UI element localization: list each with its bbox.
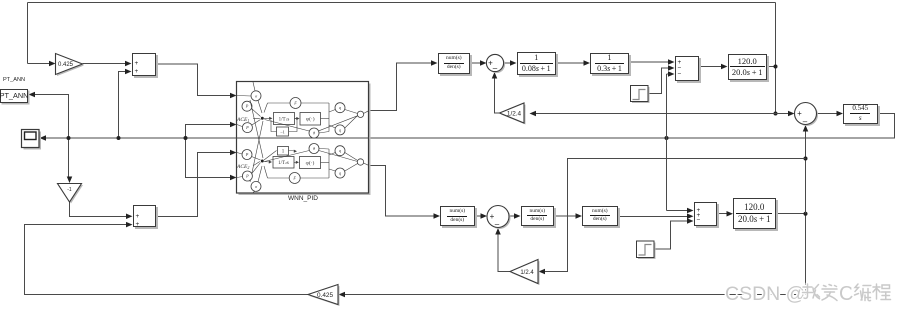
gain B1 frequency bias 0.425 top [56,54,85,77]
WNN theta1 link [319,132,329,134]
sum block C1 (bottom-left adder) [133,205,156,227]
wire bottom rail left segment [25,225,309,295]
WNN loop vertical right [328,103,330,132]
WNN neuron q2b [335,168,345,178]
arrow into sum circle A [480,60,487,66]
WNN link to q1b [329,125,335,128]
svg-text:P: P [245,104,249,109]
WNN neuron P1a [242,101,252,111]
svg-text:–: – [803,117,808,126]
WNN bottom loop rise left [264,166,268,178]
svg-text:0.425: 0.425 [317,292,333,299]
WNN wavelet to phi 2 [294,161,298,163]
WNN theta g2 to hub [265,151,310,162]
WNN port stub 1 [237,95,251,98]
wire elbow into sum B1 in3 [667,73,670,75]
WNN cross link up [250,121,263,182]
WNN top loop rail [268,102,330,104]
WNN link ACE1 to hub [253,117,260,119]
arrow into tie sum left [788,111,795,117]
arrow into gain B2 [339,292,346,298]
arrow into gain B1 [49,61,56,67]
svg-text:ACE2: ACE2 [236,164,249,170]
arrow into sum B1 in2 [668,65,675,71]
step source 2 [637,241,656,259]
junction node F1 lower [774,112,778,116]
arrow into tie sum bottom [803,125,809,132]
transfer fcn turbine area1 [517,52,557,76]
svg-text:CSDN @: CSDN @ [725,283,805,305]
WNN q2a to outhub2 [345,153,358,161]
arrow into sum D1 in2 [687,214,694,220]
WNN feedback box -1 [277,127,289,136]
WNN neuron Fd1 [290,98,301,109]
WNN neuron q1b [335,125,345,135]
svg-text:-1: -1 [67,187,72,193]
transfer fcn turbine area2 [521,206,555,227]
wire sum C1 to WNN in3 [156,153,232,217]
svg-text:q: q [339,171,341,176]
wire sum circle A to turbine1 [504,62,512,64]
WNN sigma2 stem [253,191,255,192]
wire turbine1 to reheat1 [556,62,585,64]
transfer fcn reheat area2 [582,206,618,227]
WNN hub node 1 [261,117,264,120]
WNN loop vertical right 2 [328,149,330,178]
transfer fcn reheat area1 [590,53,629,74]
arrow into governor 2 [434,213,441,219]
arrow into sum D1 in1 [687,208,694,214]
wire ACE tap to WNN in4 [186,138,232,178]
svg-text:1/2.4: 1/2.4 [520,270,534,276]
sum circle B area2 [487,206,511,230]
svg-text:+: + [797,109,802,118]
svg-text:φ(·): φ(·) [306,116,315,123]
transfer fcn power system area2 [733,198,776,229]
wire reheat2 to sum D1 in2 [618,215,689,217]
label WNN_PID block name [266,195,340,202]
WNN link P1b to hub [252,120,261,126]
svg-text:–: – [493,64,498,73]
arrow into reheat 1 [584,60,591,66]
arrow into sum D1 in3 [687,218,694,224]
WNN link P2b to hub [252,163,261,174]
transfer fcn governor area2 [440,206,475,226]
wire node F1 to gain R1 [531,113,776,115]
WNN q2b to outhub2 [345,164,358,172]
wire inverter to sum C1 in1 [70,202,128,217]
transfer fcn tie-line integrator 0.545/s [843,104,878,124]
WNN wavelet to phi 1 [295,118,299,120]
svg-text:q: q [339,105,341,110]
arrow into inverter [67,177,73,184]
watermark hanzi wo [803,284,821,299]
junction ACE rail x666 [665,136,669,140]
arrow into reheat 2 [576,213,583,219]
wire tie sum to integrator [817,113,839,115]
svg-text:θ: θ [313,146,315,151]
wire ACE tap to sum A1 in2 [119,72,127,139]
arrow into WNN in3 [230,150,237,156]
arrow into plant 1 [721,64,728,70]
WNN top loop drop left [264,103,268,113]
arrow into sum B1 in1 [668,59,675,65]
transfer fcn power system area1 [728,54,768,81]
WNN bias out [289,150,297,153]
arrow into WNN in2 [230,122,237,128]
WNN neuron P1b [242,123,252,133]
wire plant2 out to node F2 [776,213,806,215]
wire governor1 to sum circle A [470,62,482,64]
wire into gain B1 [28,63,51,65]
WNN port stub 4 [237,177,243,178]
svg-text:−1: −1 [280,129,285,134]
wire step2 to sum D1 in3 [654,221,689,249]
wire node F1 vertical rail x775 [775,3,777,114]
svg-text:P: P [245,125,249,130]
wire TF120a output to node F1 [767,66,776,68]
arrow into plant 2 [727,211,734,217]
svg-text:1/2.4: 1/2.4 [507,111,522,118]
arrow into sum circle A bottom [492,72,498,79]
label PT_ANN block name [1,77,27,83]
wire ACE tap to inverter [68,138,70,179]
WNN theta2 link [319,148,329,151]
svg-text:q: q [339,148,341,153]
wire ACE rail across WNN block [237,137,369,139]
WNN theta1 to outhub [319,116,358,131]
svg-text:–: – [495,220,500,229]
arrow into sum circle B [481,213,488,219]
wire gain B1 to sum A1 [83,63,127,65]
svg-text:q: q [339,127,341,132]
WNN phi2 out tee [321,161,330,163]
WNN hub node 2 [261,160,264,163]
arrow into WNN in1 [230,93,237,99]
WNN output node 1 [357,111,363,117]
WNN outhub1 to port [364,111,369,114]
WNN sigma1 stem [253,82,255,91]
WNN cross link down [250,100,263,158]
arrow into sum circle B bottom [495,228,501,235]
wire bottom rail right segment [344,294,806,296]
WNN theta2 to outhub2 [319,151,358,162]
watermark hanzi ai [822,285,837,301]
wire gain R1 to sum circle A bottom [495,78,500,114]
watermark hanzi cheng [873,284,891,300]
arrow into integrator [837,111,844,117]
wire integrator output loop [45,114,895,139]
wire top feedback rail y2 [28,2,776,4]
junction ACE rail x185 [184,136,188,140]
arrow into gain R2 [539,269,546,275]
wire gain R2 to sum circle B bottom [498,233,510,272]
WNN neuron q2a [335,146,345,156]
WNN neuron theta g2 [309,144,319,154]
subsystem WNN_PID frame [237,82,371,196]
WNN q1a to outhub [345,110,358,114]
wire turbine2 to reheat2 [554,215,577,217]
svg-text:θ: θ [313,131,315,136]
wire reheat1 to sum B1 in1 [629,61,670,63]
WNN link to q1a [329,110,335,113]
wire sum B1 to plant 1 [699,66,723,68]
to-workspace block PT_ANN [0,89,28,103]
sum circle tie-line [795,103,819,127]
WNN neuron sigma2 [251,181,261,191]
junction node F2 [804,212,808,216]
junction node F1 upper [774,65,778,69]
WNN phi1 out tee [321,118,330,120]
WNN outhub2 to port [364,163,369,165]
wire step1 to sum B1 in2 [648,68,670,94]
WNN neuron q1a [335,103,345,113]
sum block A1 (top-left adder) [132,53,156,76]
junction ACE rail x68 [67,136,71,140]
wire node F2 up to tie sum bottom [805,130,807,214]
step source 1 [631,86,650,104]
svg-text:1/T1s: 1/T1s [279,117,290,122]
WNN link sigma2 to hub [258,166,262,182]
gain inverter -1 down [58,184,84,204]
wire ACE tap to PT_ANN [34,95,69,139]
svg-text:0.425: 0.425 [58,62,74,68]
WNN wavelet lag box 1/T1s [274,113,295,125]
wire node F2 down rail x805 [805,214,807,295]
WNN activation box phi1 [300,113,321,126]
arrow into turbine 2 [514,213,521,219]
wire sum A1 to WNN in1 [156,64,232,96]
WNN bottom loop rail [268,177,330,179]
junction node F2 droop tap [804,157,808,161]
WNN theta g1 to hub [265,120,310,132]
WNN neuron P2a [242,150,252,160]
wire WNN out2 to governor 2 [369,166,435,217]
WNN hub2 to wavelet 2 [264,161,270,164]
svg-text:P: P [245,174,249,179]
wire left feedback drop x27 [27,3,29,64]
wire sum circle B to turbine 2 [509,215,516,217]
wire governor2 to sum circle B [475,215,482,217]
arrow into scope [40,135,47,141]
WNN wavelet lag box 1/T2s [273,157,294,169]
arrow into sum A1 in2 [125,69,132,75]
wire ACE rail to sum B1 in3 and sum D1 in1 [666,74,668,211]
arrow into WNN in4 [230,175,237,181]
wire sum D1 to plant 2 [717,213,728,215]
WNN link to q2b [329,169,335,171]
WNN bias link [264,151,277,161]
watermark hanzi bian [855,284,872,301]
wire droop tap area 2 [544,159,806,272]
WNN link to q2a [329,153,335,156]
sum circle A area1 [486,54,505,73]
transfer fcn governor area1 [438,53,471,74]
wire elbow into sum D1 in1 [667,210,689,212]
wire WNN out1 to governor 1 [369,63,433,111]
WNN link ACE2 to hub [253,162,260,166]
junction ACE rail x118 [117,136,121,140]
WNN neuron Fd2 [289,173,300,184]
arrow into PT_ANN [29,92,36,98]
WNN neuron P2b [242,171,252,181]
arrow into sum A1 in1 [125,61,132,67]
svg-text:F: F [293,101,297,106]
WNN port stub 3 [237,153,242,155]
arrow into sum C1 in1 [126,214,133,220]
WNN neuron theta g1 [309,128,319,138]
svg-text:P: P [245,152,249,157]
svg-text:ACE1: ACE1 [236,117,249,123]
svg-text:F: F [292,176,296,181]
sum block B1 (area1 load adder) [675,56,700,81]
arrow into sum B1 in3 [668,71,675,77]
svg-text:1/T2s: 1/T2s [278,161,289,166]
svg-text:C: C [839,283,853,305]
WNN feedback tee 1 [289,119,297,132]
gain R1 droop 1/2.4 top [500,103,526,125]
gain R2 droop 1/2.4 bottom [510,260,540,286]
WNN bias box one [278,147,289,156]
WNN port stub 2 [237,125,242,127]
arrow into gain R1 [530,111,537,117]
WNN output node 2 [357,159,363,165]
arrow into turbine 1 [510,60,517,66]
WNN link sigma1 to hub [258,101,262,114]
WNN activation box phi2 [300,157,321,169]
scope block [22,130,42,150]
arrow into governor 1 [431,60,438,66]
WNN link P2a to hub [252,157,261,161]
arrow into sum C1 in2 [126,222,133,228]
svg-text:φ(·): φ(·) [306,159,315,166]
wire node F1 into tie sum [776,113,790,115]
sum block D1 (area2 load adder) [694,202,717,227]
wire ACE tap to WNN in2 [186,125,232,139]
gain B2 frequency bias 0.425 bottom [308,285,340,307]
WNN link P1a to hub [252,109,261,117]
WNN neuron sigma1 [251,91,261,101]
WNN q1b to outhub [345,116,358,129]
WNN hub1 to wavelet box [264,117,270,119]
WNN feedback loop 1b [271,120,277,132]
